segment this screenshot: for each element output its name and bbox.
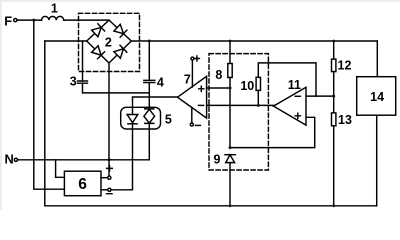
wire op-amp 7 plus input to resistor 8 <box>207 87 230 89</box>
unit 6 box <box>64 171 101 196</box>
bridge 2 diamond frame <box>87 20 132 63</box>
diode D2b top-right <box>114 24 127 37</box>
node resistor 10 output junction <box>257 104 260 107</box>
unit 6 minus sign <box>107 193 113 195</box>
wire bridge left corner to left branch <box>45 40 87 42</box>
svg-text:2: 2 <box>105 36 112 50</box>
LED of unit 5 <box>127 115 138 124</box>
op-amp 11 minus input mark <box>295 95 300 97</box>
zener 9 bottom lead <box>229 163 231 206</box>
wire inductor to bridge top corner <box>64 19 109 21</box>
wire top rail down to unit 14 top <box>376 41 378 77</box>
node op-amp 7 plus junction <box>229 87 232 90</box>
op-amp 7 plus input mark <box>199 86 204 91</box>
optocoupler 5 box <box>121 107 161 129</box>
node divider junction <box>332 95 335 98</box>
op-amp 7 minus input mark <box>198 104 203 106</box>
resistor 10 body <box>256 77 260 90</box>
node resistor 13 ground junction <box>332 204 335 207</box>
node F junction <box>32 19 35 22</box>
wire N branch to unit 6 upper input <box>56 160 65 178</box>
svg-text:9: 9 <box>214 153 221 167</box>
unit 6 minus output wire <box>101 189 108 191</box>
inductor 1 <box>42 16 64 20</box>
wire N horizontal <box>18 159 150 161</box>
unit 6 plus output wire <box>101 177 108 179</box>
wire bridge bottom corner down to unit 6 plus terminal <box>108 63 110 176</box>
resistor 10 bottom lead <box>257 90 259 105</box>
resistor 8 body <box>228 64 232 78</box>
diode D2d bottom-right <box>114 45 127 58</box>
wire F branch down to unit 6 lower input <box>34 20 65 189</box>
wire ground rail up to unit 14 bottom <box>376 115 378 206</box>
resistor 13 bottom lead <box>333 126 335 206</box>
unit 6 minus terminal <box>108 188 111 191</box>
resistor 13 body <box>332 113 336 126</box>
node cap4 top junction <box>148 40 151 43</box>
op-amp 7 negative supply minus sign <box>195 124 200 126</box>
svg-text:11: 11 <box>288 78 301 92</box>
unit 6 plus sign <box>107 166 113 172</box>
node N terminal <box>14 158 17 161</box>
svg-text:14: 14 <box>370 90 384 104</box>
svg-text:1: 1 <box>51 2 58 16</box>
svg-text:3: 3 <box>70 75 77 89</box>
capacitor 3 plates <box>78 81 88 83</box>
node F terminal <box>14 19 17 22</box>
node N junction on bridge bottom wire <box>108 158 111 161</box>
wire F to junction <box>17 19 42 21</box>
wire LED top to op-amp 7 output <box>133 97 178 115</box>
op-amp 7 triangle <box>178 76 207 118</box>
op-amp 7 positive supply plus sign <box>194 56 199 61</box>
node resistor 12 top junction <box>332 40 335 43</box>
resistor 13 top lead <box>333 96 335 113</box>
diode D2c bottom-left <box>92 46 105 59</box>
op-amp 7 positive supply pin <box>191 60 193 87</box>
capacitor 4 bottom lead into unit 5 <box>148 83 150 110</box>
svg-text:8: 8 <box>215 68 222 82</box>
resistor 12 bottom lead <box>333 72 335 97</box>
wire bridge right corner along top rail <box>131 40 377 42</box>
capacitor 4 plates <box>144 80 155 82</box>
node resistor 8 top junction <box>229 40 232 43</box>
svg-text:6: 6 <box>78 176 87 193</box>
dashed box reference network <box>209 54 268 170</box>
wire diamond bottom to N wire <box>148 123 150 159</box>
svg-text:13: 13 <box>338 113 352 127</box>
svg-text:F: F <box>4 13 12 28</box>
wire zener node to op-amp 11 plus input <box>230 117 315 147</box>
svg-text:12: 12 <box>338 59 352 73</box>
node zener ground junction <box>229 204 232 207</box>
node zener top junction <box>229 146 232 149</box>
resistor 12 top lead <box>333 41 335 59</box>
unit 6 plus terminal <box>108 176 111 179</box>
op-amp 7 negative supply pin <box>191 108 193 123</box>
svg-text:4: 4 <box>157 75 164 89</box>
resistor 8 bottom lead to zener <box>229 78 231 148</box>
resistor 12 body <box>332 59 336 72</box>
op-amp 7 positive supply terminal <box>191 57 194 60</box>
wire unit 6 minus to LED of unit 5 <box>111 124 132 190</box>
zener diode 9 <box>225 155 235 163</box>
capacitor 3 bottom lead to node under bridge <box>83 83 150 93</box>
op-amp 11 triangle <box>274 87 307 125</box>
unit 14 box <box>357 77 396 116</box>
svg-text:7: 7 <box>184 72 191 86</box>
wire left branch down to ground rail <box>44 41 46 206</box>
resistor 10 top lead and feedback wire <box>258 63 316 96</box>
svg-text:N: N <box>5 152 14 167</box>
svg-text:5: 5 <box>165 112 172 126</box>
wire op-amp 7 minus input to op-amp 11 output <box>207 104 274 106</box>
wire op-amp 11 minus input to divider <box>306 95 334 97</box>
dashed box around bridge 2 <box>79 13 140 71</box>
diode D2a top-left <box>92 24 105 37</box>
op-amp 11 plus input mark <box>295 113 300 118</box>
photodiode diamond of unit 5 <box>144 109 155 124</box>
wire bottom ground rail <box>45 205 377 207</box>
op-amp 7 negative supply terminal <box>190 123 193 126</box>
resistor 8 top lead <box>229 41 231 64</box>
svg-text:10: 10 <box>240 79 254 93</box>
capacitor 4 top lead <box>148 41 150 80</box>
capacitor 3 top lead <box>82 41 84 81</box>
